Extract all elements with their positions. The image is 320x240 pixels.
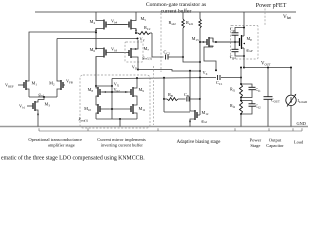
svg-text:Power: Power	[250, 137, 262, 142]
label ILOAD	[298, 98, 309, 104]
label M3	[45, 102, 51, 108]
node MP gate	[234, 41, 236, 43]
svg-text:Common-gate transistor as: Common-gate transistor as	[146, 2, 206, 8]
box common-gate M7	[125, 42, 143, 62]
transistor M6	[96, 33, 129, 87]
node VOUT	[243, 61, 271, 68]
label Cgd	[230, 54, 236, 60]
wire mirror center column	[111, 86, 113, 119]
node VX	[111, 81, 120, 87]
transistor M8	[96, 86, 128, 105]
node VFB label	[66, 79, 73, 85]
arrow M7 source	[134, 48, 136, 50]
wire RB feed	[163, 77, 165, 100]
transistor M1	[18, 37, 29, 97]
label gm2	[202, 119, 208, 124]
transistor M2	[57, 39, 65, 98]
wire mirror ground	[119, 119, 121, 127]
label RC2	[144, 25, 151, 31]
label load	[294, 140, 304, 145]
wire M2 drain to VY	[57, 38, 138, 40]
node VD dot	[137, 69, 139, 71]
svg-text:ematic of the three stage LDO: ematic of the three stage LDO compensate…	[1, 155, 145, 162]
wire Rad1 col	[199, 42, 201, 78]
label Rad2	[169, 20, 177, 26]
transistor M3	[27, 100, 38, 127]
label power pFET	[256, 3, 287, 9]
label Rf2	[230, 103, 236, 109]
leader common-gate	[160, 13, 162, 72]
svg-text:Capacitor: Capacitor	[266, 143, 284, 148]
caption	[1, 155, 145, 162]
svg-text:inverting current buffer: inverting current buffer	[101, 143, 144, 148]
wire ground rail	[0, 126, 308, 128]
capacitor Cgs	[232, 27, 246, 43]
label Rout1	[78, 118, 89, 123]
wire CC1 to Rf	[199, 77, 242, 79]
node RB tap	[199, 98, 201, 100]
wire M12 source link	[164, 99, 190, 112]
label Vb4	[111, 19, 118, 25]
label M4	[90, 19, 96, 25]
capacitor CC2	[166, 55, 168, 60]
arrow M9 gate	[125, 91, 127, 93]
label M13	[192, 36, 199, 42]
wire VX compensation	[112, 78, 216, 79]
wire feedback column bottom	[240, 114, 242, 127]
svg-text:Power pFET: Power pFET	[256, 3, 287, 9]
transistor M11	[109, 104, 137, 119]
label COUT	[271, 98, 280, 104]
label CC2	[164, 50, 171, 56]
label adaptive stage	[177, 140, 221, 145]
node VD label	[132, 64, 138, 70]
resistor Rf2	[240, 98, 243, 115]
capacitor Cf1	[240, 83, 256, 99]
wire CB to col	[189, 98, 200, 100]
resistor RB	[164, 98, 186, 101]
wire VOUT rail	[244, 67, 291, 69]
arrow M6 drain	[95, 47, 97, 49]
label Rad1	[186, 20, 194, 26]
label power stage	[250, 137, 262, 148]
label CC1	[216, 80, 223, 86]
arrow MP gate	[243, 43, 245, 45]
label M2	[49, 81, 55, 87]
svg-text:VOUT: VOUT	[261, 61, 271, 66]
svg-text:Operational transconductance: Operational transconductance	[28, 137, 82, 142]
arrow M5 drain	[135, 30, 137, 32]
capacitor COUT	[264, 67, 273, 127]
label M8	[88, 87, 94, 93]
label Vb1	[19, 104, 26, 110]
wire mirror top	[96, 79, 112, 87]
svg-text:gmC(1): gmC(1)	[143, 56, 153, 61]
label GND	[297, 121, 306, 126]
label Vb2	[114, 87, 121, 93]
label output capacitor	[266, 137, 284, 148]
label Cf2	[256, 104, 262, 110]
wire M12 col	[199, 78, 201, 100]
transistor M13	[200, 37, 213, 47]
box current mirror	[80, 75, 150, 128]
node M12 drain	[189, 70, 191, 72]
svg-text:Stage: Stage	[250, 143, 260, 148]
label MP	[247, 36, 253, 42]
label Rf1	[230, 87, 236, 93]
node M13 gate	[199, 41, 201, 43]
arrow M12 source	[189, 121, 191, 123]
label current mirror stage	[97, 137, 146, 147]
transistor M5	[108, 12, 136, 33]
box power fet	[231, 26, 259, 60]
wire MP drain	[243, 48, 245, 68]
current source ILOAD	[286, 67, 296, 127]
wire tail	[29, 96, 57, 100]
resistor Rad2	[182, 12, 185, 57]
svg-text:Load: Load	[294, 140, 304, 145]
wire M1 drain to mirror	[29, 32, 96, 37]
label Vb3	[111, 47, 118, 53]
stage divider line	[39, 128, 302, 131]
label gmP	[247, 48, 253, 53]
transistor M4	[96, 12, 127, 33]
wire M13 drain	[213, 38, 240, 43]
label M9	[139, 87, 145, 93]
svg-text:Current mirror implements: Current mirror implements	[97, 137, 146, 142]
label gm1	[39, 92, 45, 98]
label Vbat	[283, 14, 291, 20]
transistor M7	[129, 40, 138, 69]
wire VIN power rail	[35, 11, 296, 13]
label M6	[90, 47, 96, 53]
wire M12 gate drop	[199, 99, 201, 115]
arrow M4 drain	[95, 30, 97, 32]
boundary dashes	[153, 66, 155, 125]
wire MP source col	[243, 12, 245, 36]
transistor M10	[96, 104, 109, 119]
arrow M8 gate	[104, 91, 106, 93]
label M5	[141, 16, 147, 22]
label M7	[144, 46, 150, 52]
node VZ	[199, 70, 208, 76]
wire M6 source into box	[95, 57, 97, 87]
label OTA stage	[28, 137, 82, 147]
transistor M9	[102, 78, 137, 105]
resistor Rad1	[199, 12, 202, 42]
transistor MP	[216, 35, 244, 49]
label common-gate current buffer	[146, 2, 206, 14]
node mirror top junction	[95, 85, 97, 87]
capacitor CB	[187, 97, 189, 102]
leader power pFET	[264, 9, 266, 26]
label M1	[32, 81, 38, 87]
node junction M4-M6-M1	[95, 31, 97, 33]
label M12	[202, 110, 209, 116]
resistor Rf1	[240, 84, 243, 98]
node VY	[137, 36, 146, 42]
label M11	[139, 106, 146, 112]
node VREF label	[5, 83, 14, 89]
svg-text:GND: GND	[297, 121, 306, 126]
node M9 drain	[136, 77, 138, 79]
wire M13 source	[204, 47, 217, 71]
label M10	[84, 106, 91, 112]
svg-text:Adaptive biasing stage: Adaptive biasing stage	[177, 140, 221, 145]
capacitor Cf2	[240, 100, 256, 116]
resistor RC2	[136, 32, 152, 35]
wire CC2 to Rad2	[168, 56, 184, 58]
label Cf1	[256, 87, 262, 93]
svg-text:amplifier stage: amplifier stage	[48, 143, 75, 148]
capacitor CC1	[218, 75, 220, 80]
capacitor Cgd	[232, 42, 246, 57]
wire mirror bottom	[96, 118, 137, 120]
svg-text:Output: Output	[269, 137, 282, 142]
node junction M5 drain	[135, 32, 137, 34]
arrow M13 gate	[203, 41, 205, 43]
arrow M3 source	[37, 114, 39, 116]
wire VZ	[138, 70, 200, 72]
transistor M12	[190, 71, 200, 127]
label Cgs	[230, 27, 236, 33]
label RB	[168, 92, 173, 98]
label gmC1	[143, 56, 153, 61]
wire feedback column top	[240, 67, 242, 85]
label CB	[184, 92, 189, 98]
svg-text:current buffer: current buffer	[161, 7, 192, 14]
wire RC2 down	[152, 33, 164, 57]
wire to Rad1 col	[183, 57, 201, 63]
